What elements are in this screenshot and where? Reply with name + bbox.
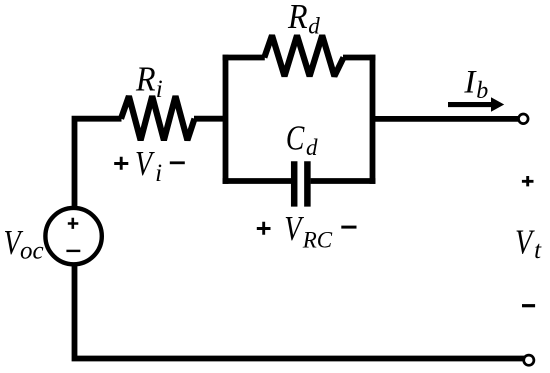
svg-text:i: i xyxy=(155,160,162,187)
resistor R_d xyxy=(264,35,343,76)
svg-text:V: V xyxy=(515,222,535,261)
svg-text:t: t xyxy=(534,237,542,264)
wire from R_i to RC-block left node xyxy=(194,116,226,122)
node: positive output terminal xyxy=(519,114,529,124)
wire: RC block top-left to R_d xyxy=(223,55,265,61)
V_oc minus mark xyxy=(66,250,80,252)
capacitor C_d xyxy=(294,161,307,206)
label plus of V_i xyxy=(114,157,128,170)
output wire to positive terminal xyxy=(372,116,518,122)
label minus of V_RC xyxy=(341,226,356,229)
wire: C_d to RC block bottom-right xyxy=(311,178,376,184)
svg-text:R: R xyxy=(287,0,308,36)
V_oc plus mark xyxy=(68,218,79,229)
wire from V_oc bottom down and right along bottom rail to negative terminal xyxy=(75,264,525,359)
wire: R_d to RC block top-right xyxy=(343,55,375,61)
current arrow I_b xyxy=(448,97,504,112)
svg-text:b: b xyxy=(476,78,488,104)
wire: RC block bottom-left to C_d xyxy=(223,178,292,184)
svg-text:d: d xyxy=(306,135,318,160)
wire: RC block right vertical xyxy=(370,55,376,184)
svg-text:i: i xyxy=(156,76,163,103)
svg-text:RC: RC xyxy=(302,227,333,252)
svg-text:R: R xyxy=(135,60,156,99)
svg-text:V: V xyxy=(135,144,155,183)
svg-text:V: V xyxy=(284,209,304,248)
wire: RC block left vertical xyxy=(223,55,229,184)
voltage source V_oc circle xyxy=(45,208,101,264)
node: negative output terminal xyxy=(524,355,534,365)
svg-text:d: d xyxy=(308,13,320,38)
label minus at V_t xyxy=(522,304,535,307)
resistor R_i xyxy=(121,96,195,140)
label plus at V_t xyxy=(522,176,534,186)
svg-text:oc: oc xyxy=(20,238,44,265)
wire from V_oc top up and right to R_i xyxy=(75,119,122,207)
label minus of V_i xyxy=(170,161,185,164)
svg-text:C: C xyxy=(286,119,305,158)
label plus of V_RC xyxy=(257,222,271,235)
